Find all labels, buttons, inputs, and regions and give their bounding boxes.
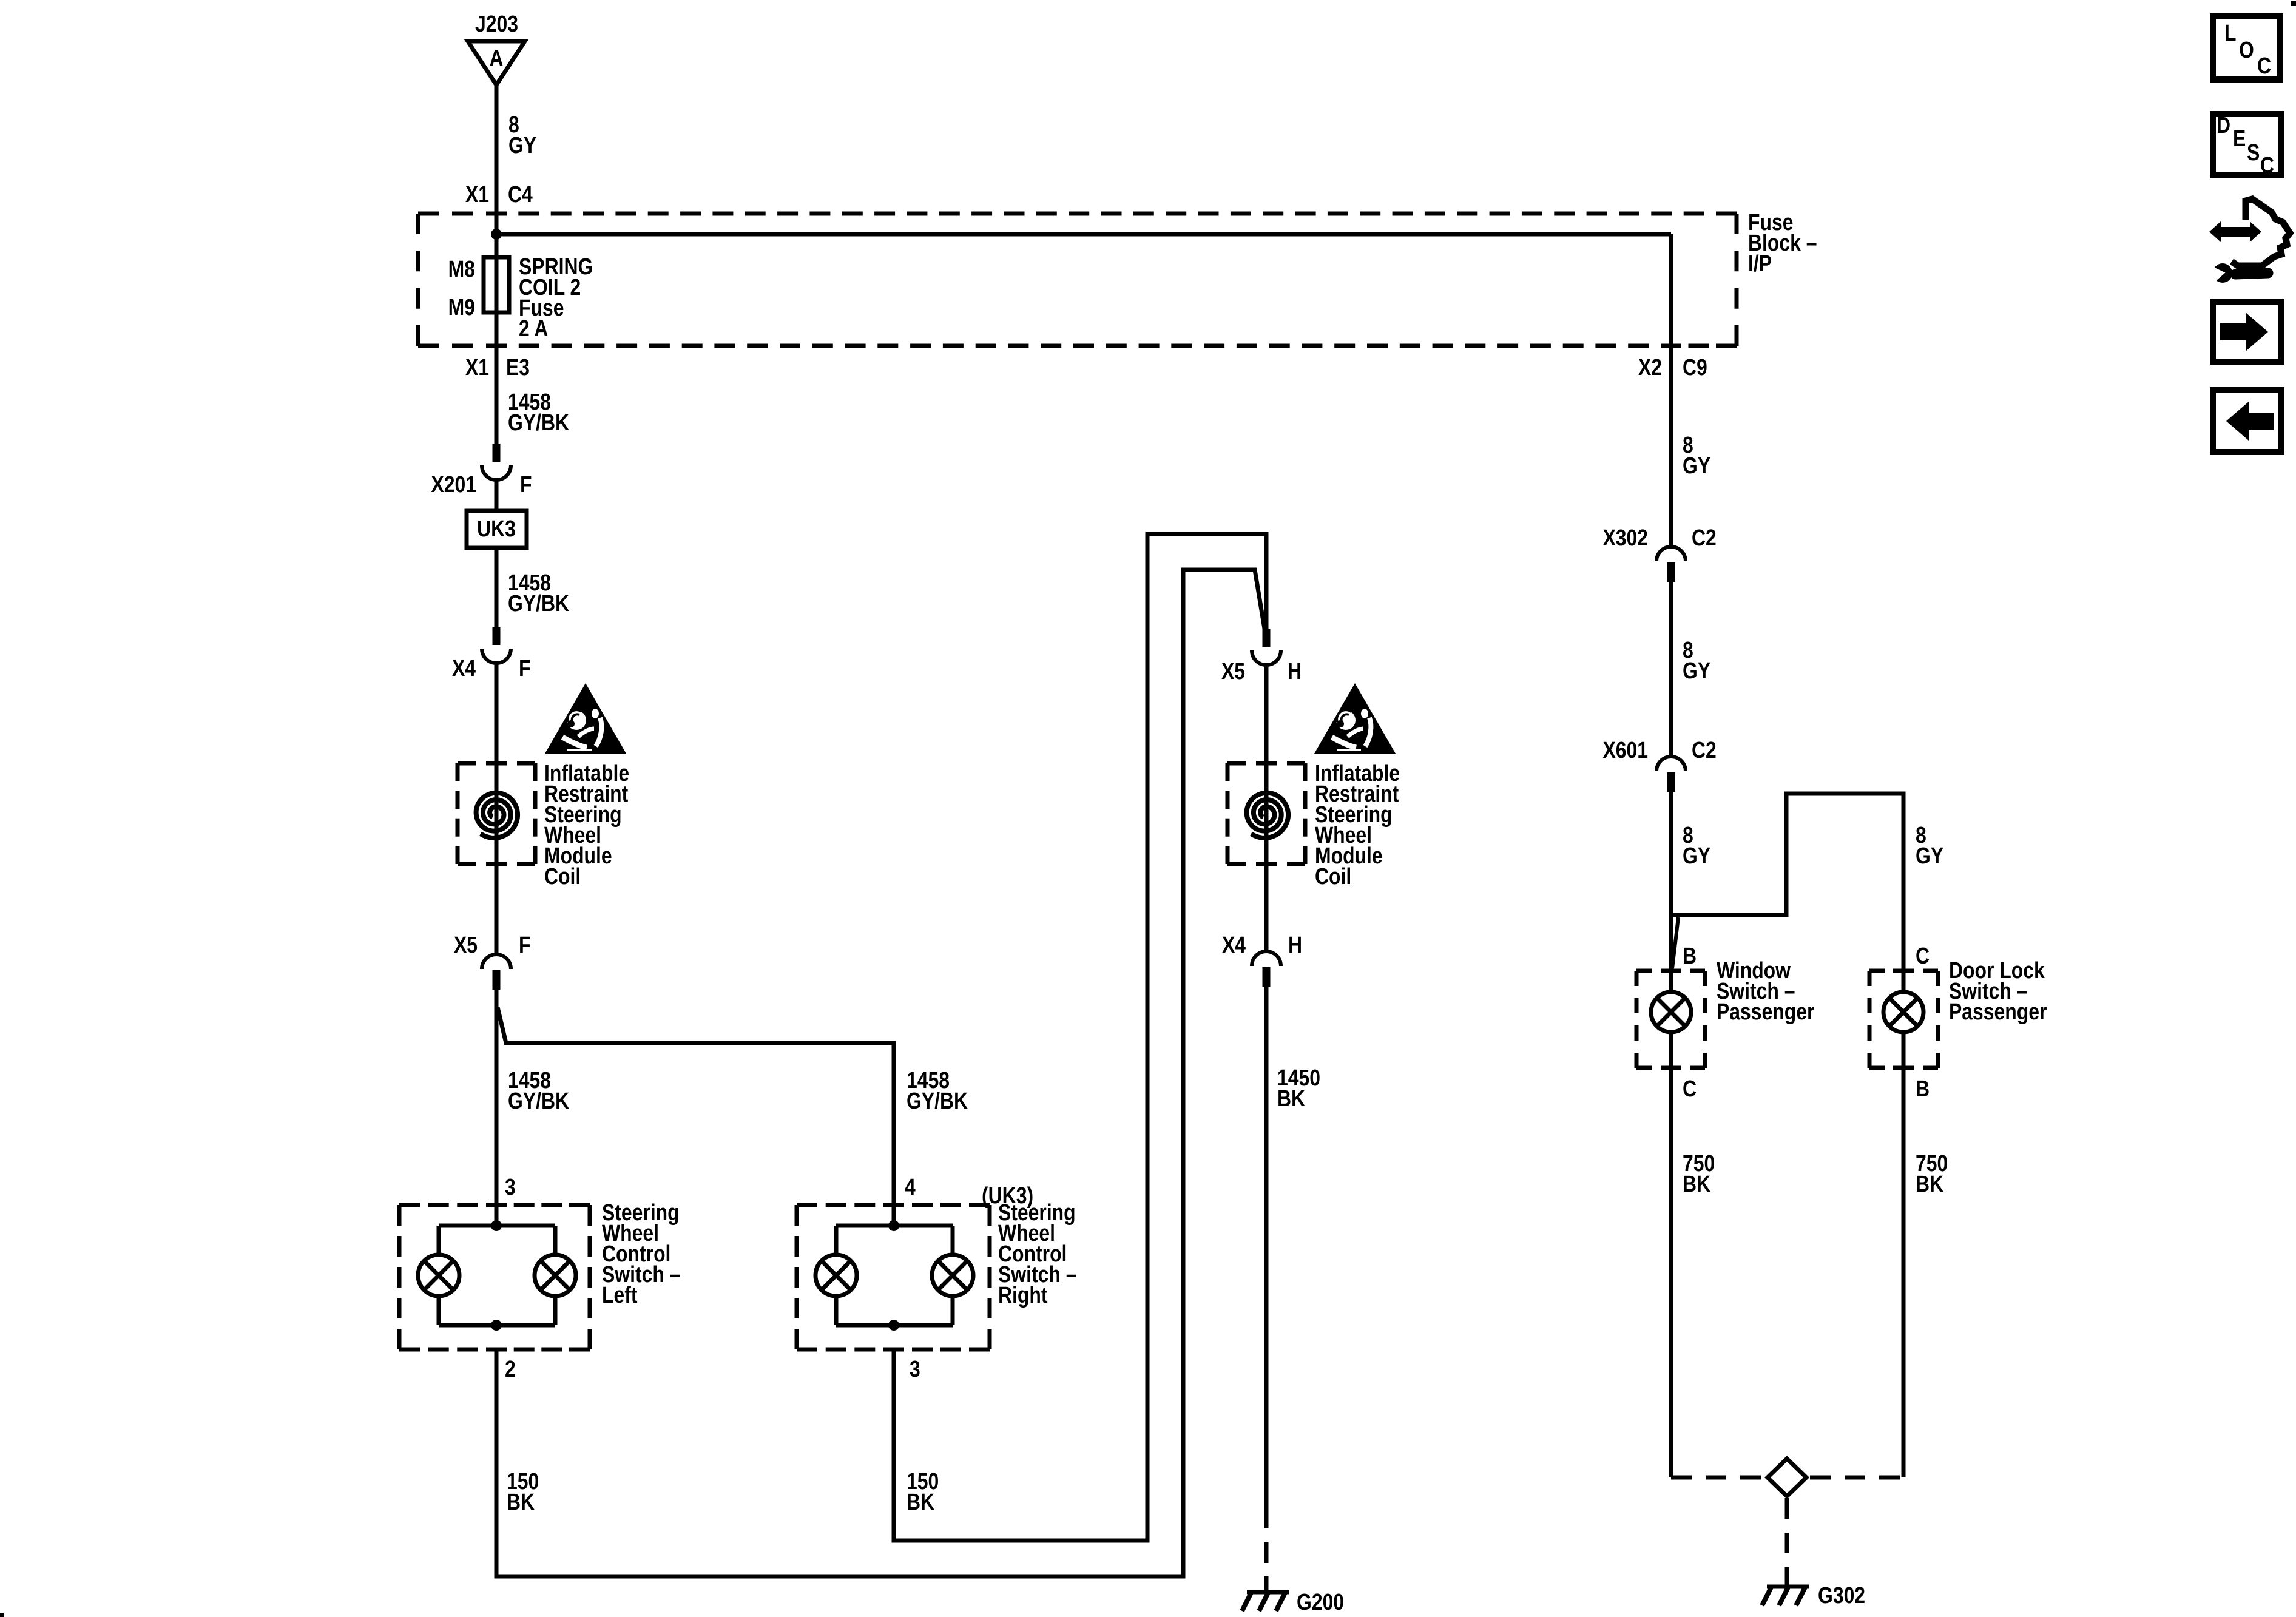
- svg-text:X4: X4: [1222, 932, 1246, 957]
- pin C label door lock: [1916, 943, 1930, 968]
- connector X1 C4 labels: [465, 181, 489, 207]
- warning triangle SIR middle: [1314, 683, 1396, 754]
- svg-text:3: 3: [910, 1356, 920, 1382]
- wire 1450 BK: [1264, 987, 1269, 1508]
- label coil module left: [544, 760, 629, 786]
- wire dashed to G200: [1264, 1508, 1269, 1576]
- wire 1458 GY/BK to left switch: [495, 990, 499, 1226]
- svg-text:Coil: Coil: [1315, 863, 1351, 889]
- wire slant at window switch tap: [1672, 917, 1678, 968]
- svg-text:BK: BK: [1683, 1171, 1710, 1197]
- switch right inner circuit: [888, 1220, 899, 1231]
- connector X4 H: [1252, 951, 1281, 966]
- svg-text:UK3: UK3: [477, 516, 516, 541]
- pin B label: [1683, 943, 1697, 968]
- label switch right: [998, 1200, 1076, 1225]
- label 750 BK left: [1683, 1150, 1715, 1176]
- icon box DESC: [2213, 114, 2281, 175]
- label door lock switch: [1949, 957, 2045, 983]
- label (UK3): [982, 1183, 1033, 1208]
- wire through coil module: [495, 663, 499, 954]
- svg-text:J203: J203: [475, 11, 518, 36]
- svg-text:4: 4: [905, 1174, 916, 1200]
- steering wheel control switch left box: [399, 1203, 420, 1207]
- lamp door lock switch: [1883, 992, 1923, 1032]
- coil spiral middle: [1247, 793, 1289, 838]
- wire 150 BK left switch to X5 H: [496, 570, 1264, 1576]
- svg-text:L: L: [2224, 20, 2236, 46]
- fuse block - I/P box: [418, 212, 439, 216]
- window switch passenger box: [1636, 969, 1652, 973]
- svg-text:GY: GY: [1683, 843, 1710, 868]
- label wire 1458 GY/BK: [508, 389, 551, 414]
- svg-text:B: B: [1916, 1076, 1930, 1101]
- svg-text:O: O: [2239, 37, 2254, 62]
- svg-text:C4: C4: [508, 181, 533, 207]
- svg-text:GY: GY: [1683, 658, 1710, 683]
- svg-text:Left: Left: [602, 1282, 638, 1308]
- svg-text:C: C: [2260, 152, 2274, 178]
- lamp left switch B: [535, 1255, 576, 1296]
- label coil module middle: [1315, 760, 1400, 786]
- coil module box middle: [1227, 761, 1246, 766]
- ground G200: [1247, 1590, 1289, 1595]
- label switch left: [602, 1200, 680, 1225]
- wire dashed splice to door lock: [1810, 1476, 1903, 1480]
- wire dashed to G302: [1785, 1498, 1789, 1571]
- door lock switch passenger box: [1869, 969, 1885, 973]
- wire dashed to splice: [1671, 1476, 1764, 1480]
- pin 2 label: [505, 1356, 516, 1382]
- svg-text:H: H: [1288, 658, 1302, 684]
- label 150 BK left: [507, 1468, 539, 1494]
- wire 8 GY: [1669, 582, 1673, 757]
- wire through coil module 2: [1264, 665, 1269, 951]
- label G302: [1818, 1582, 1865, 1608]
- node junction at fuse: [491, 229, 502, 240]
- label Fuse Block - I/P: [1748, 209, 1793, 235]
- splice symbol (diamond): [1768, 1459, 1806, 1496]
- splice symbol A (triangle): [468, 41, 525, 85]
- coil module box left: [458, 761, 476, 766]
- connector X601 C2: [1656, 757, 1686, 771]
- svg-text:GY/BK: GY/BK: [907, 1088, 968, 1113]
- svg-text:GY: GY: [1683, 453, 1710, 478]
- svg-text:G200: G200: [1297, 1589, 1344, 1615]
- lamp right switch A: [815, 1255, 857, 1296]
- connector X5 H: [1263, 629, 1271, 647]
- connector X302 C2: [1656, 547, 1686, 561]
- svg-text:G302: G302: [1818, 1582, 1865, 1608]
- svg-text:I/P: I/P: [1748, 251, 1772, 276]
- wire 1458 GY/BK: [495, 548, 499, 627]
- svg-text:X5: X5: [1221, 658, 1245, 684]
- connector X5 F: [482, 954, 511, 969]
- connector X1 E3 labels: [465, 354, 489, 380]
- svg-text:X302: X302: [1602, 525, 1648, 550]
- svg-text:F: F: [519, 932, 530, 957]
- svg-text:Passenger: Passenger: [1717, 999, 1815, 1024]
- svg-text:X1: X1: [465, 354, 489, 380]
- pin 3 label right switch: [910, 1356, 920, 1382]
- svg-text:C9: C9: [1683, 354, 1707, 380]
- label G200: [1297, 1589, 1344, 1615]
- svg-text:Right: Right: [998, 1282, 1048, 1308]
- fuse SPRING COIL 2 Fuse 2A: [495, 235, 499, 444]
- wire 8 GY to window switch: [1669, 792, 1673, 971]
- svg-text:GY/BK: GY/BK: [508, 590, 569, 616]
- svg-text:C: C: [1916, 943, 1930, 968]
- svg-text:Coil: Coil: [544, 863, 581, 889]
- wire 150 BK right switch to X5 H: [894, 534, 1266, 1541]
- corner mark bottom left: [0, 1613, 4, 1617]
- connector X2 C9 labels: [1638, 354, 1662, 380]
- svg-text:BK: BK: [507, 1489, 535, 1514]
- svg-text:E3: E3: [506, 354, 530, 380]
- label window switch: [1717, 957, 1791, 983]
- pin 4 label: [905, 1174, 916, 1200]
- icon harness double arrow: [2209, 221, 2261, 242]
- wire 750 BK: [1669, 1068, 1673, 1477]
- svg-text:H: H: [1288, 932, 1302, 957]
- label 8 GY: [508, 112, 519, 137]
- label 1458 GY/BK right: [907, 1067, 950, 1093]
- pin 3 label: [505, 1174, 516, 1200]
- svg-text:GY/BK: GY/BK: [508, 410, 569, 435]
- svg-text:BK: BK: [1277, 1085, 1305, 1111]
- label 8 GY right 2: [1683, 637, 1693, 663]
- label 750 BK right: [1916, 1150, 1948, 1176]
- icon wrench: [2235, 273, 2268, 274]
- svg-text:F: F: [520, 471, 532, 497]
- label 8 GY right 1: [1683, 432, 1693, 457]
- svg-text:C: C: [2257, 53, 2271, 78]
- svg-text:X201: X201: [431, 471, 476, 497]
- splice J203 label: [475, 11, 518, 36]
- svg-text:Passenger: Passenger: [1949, 999, 2047, 1024]
- svg-text:X2: X2: [1638, 354, 1662, 380]
- warning triangle SIR left: [545, 683, 626, 754]
- wire: [495, 480, 499, 511]
- wire 750 BK right: [1902, 1068, 1906, 1477]
- wire down right branch: [1669, 234, 1673, 547]
- wire bus to X2 C9: [496, 232, 1671, 237]
- wire 1458 GY/BK branch to right switch: [498, 1007, 894, 1226]
- pin B label door lock: [1916, 1076, 1930, 1101]
- svg-text:GY: GY: [1916, 843, 1943, 868]
- label 1458 GY/BK left: [508, 1067, 551, 1093]
- coil spiral left: [476, 793, 518, 838]
- steering wheel control switch right box: [797, 1203, 817, 1207]
- icon harness panel outline: [2232, 199, 2290, 266]
- option box UK3: [467, 511, 527, 548]
- label 8 GY right 4: [1916, 822, 1926, 848]
- switch left inner circuit: [491, 1220, 502, 1231]
- svg-text:X4: X4: [452, 655, 476, 681]
- svg-text:M9: M9: [448, 294, 475, 320]
- svg-text:2: 2: [505, 1356, 516, 1382]
- icon box LOC: [2213, 16, 2280, 79]
- wire 8 GY branch to door lock switch: [1671, 794, 1903, 971]
- connector X201 F: [493, 444, 501, 462]
- svg-text:GY: GY: [508, 132, 536, 158]
- svg-text:E: E: [2233, 126, 2246, 151]
- icon box arrow left: [2213, 390, 2281, 452]
- svg-text:GY/BK: GY/BK: [508, 1088, 569, 1113]
- svg-text:C: C: [1683, 1076, 1697, 1101]
- svg-text:BK: BK: [907, 1489, 934, 1514]
- label 150 BK right: [907, 1468, 939, 1494]
- label 1458 GY/BK: [508, 570, 551, 595]
- wire 8 GY from J203: [495, 85, 499, 235]
- svg-text:X1: X1: [465, 181, 489, 207]
- lamp left switch A: [418, 1255, 459, 1296]
- svg-text:C2: C2: [1692, 525, 1717, 550]
- svg-text:S: S: [2247, 140, 2260, 165]
- label 1450 BK: [1277, 1065, 1320, 1090]
- svg-text:F: F: [519, 655, 530, 681]
- label 8 GY right 3: [1683, 822, 1693, 848]
- svg-text:BK: BK: [1916, 1171, 1943, 1197]
- svg-text:2 A: 2 A: [519, 316, 548, 341]
- svg-text:A: A: [489, 46, 503, 71]
- corner mark top right: [2291, 1, 2296, 6]
- icon box arrow right: [2213, 302, 2281, 362]
- wire stub at G200: [1264, 1576, 1269, 1590]
- lamp window switch: [1651, 992, 1691, 1032]
- svg-text:3: 3: [505, 1174, 516, 1200]
- svg-text:X5: X5: [454, 932, 478, 957]
- wire stub at G302: [1785, 1571, 1789, 1585]
- svg-text:M8: M8: [448, 256, 475, 282]
- ground G302: [1767, 1585, 1809, 1589]
- svg-text:B: B: [1683, 943, 1697, 968]
- svg-text:X601: X601: [1602, 737, 1648, 763]
- pin C label: [1683, 1076, 1697, 1101]
- connector X4 F: [493, 627, 501, 645]
- svg-text:C2: C2: [1692, 737, 1717, 763]
- svg-text:D: D: [2217, 112, 2230, 138]
- lamp right switch B: [932, 1255, 973, 1296]
